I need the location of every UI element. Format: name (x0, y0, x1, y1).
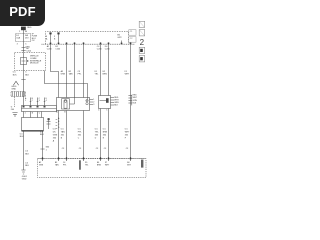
svg-text:BRN: BRN (97, 165, 102, 167)
svg-text:3: 3 (93, 104, 94, 106)
wire: speaker feed B (74, 44, 76, 97)
svg-text:A5: A5 (61, 70, 64, 73)
svg-text:C200: C200 (97, 49, 103, 51)
svg-text:0.5: 0.5 (125, 128, 129, 130)
svg-text:A: A (56, 111, 58, 114)
svg-text:GRN: GRN (133, 100, 138, 102)
svg-text:5: 5 (25, 72, 27, 74)
module pin terminals (49, 32, 51, 34)
svg-text:BLK: BLK (133, 103, 137, 105)
pin marks on module face (50, 43, 52, 45)
svg-text:335: 335 (125, 134, 129, 136)
svg-text:334: 334 (103, 134, 107, 136)
wire: speaker feed A (66, 44, 68, 158)
bottom module connector face (dotted top edge) (38, 158, 147, 160)
svg-text:1: 1 (25, 113, 26, 115)
wire: bus pin drop 1 (staircase to speaker box) (51, 34, 59, 98)
svg-text:B2: B2 (69, 71, 72, 73)
svg-text:C: C (39, 113, 41, 115)
inline connector on right wire (128, 95, 131, 106)
svg-text:PPL: PPL (78, 131, 83, 133)
wire: module feed D (100, 44, 102, 158)
wire: module feed E (108, 44, 110, 158)
svg-text:2: 2 (32, 100, 33, 102)
svg-text:BLK: BLK (25, 153, 29, 155)
svg-text:C3: C3 (62, 148, 64, 150)
svg-text:D: D (95, 137, 97, 139)
svg-text:1: 1 (25, 100, 26, 102)
svg-text:2: 2 (19, 31, 20, 33)
wire: main left feed vertical (23, 27, 25, 170)
svg-text:PPL: PPL (63, 165, 67, 167)
svg-text:CK: CK (32, 40, 35, 42)
svg-text:0.5: 0.5 (103, 128, 107, 130)
svg-text:3: 3 (39, 100, 40, 102)
svg-text:F: F (125, 137, 127, 139)
svg-text:B: B (32, 113, 34, 115)
svg-text:0.5: 0.5 (13, 72, 17, 74)
B2 heavy bottom edge (22, 130, 44, 132)
svg-text:GND: GND (11, 89, 16, 91)
svg-text:C100: C100 (26, 50, 32, 52)
svg-text:YEL: YEL (95, 131, 100, 133)
module face (dotted bottom edge) (42, 43, 135, 45)
svg-text:5: 5 (106, 109, 107, 111)
svg-text:C: C (58, 124, 60, 126)
svg-text:BRN: BRN (103, 74, 108, 76)
svg-text:RED: RED (27, 27, 32, 29)
ground drop dashed wire (14, 97, 16, 107)
svg-text:WHT: WHT (125, 74, 130, 76)
svg-text:B: B (61, 137, 63, 139)
svg-text:5: 5 (25, 44, 27, 46)
svg-text:RED: RED (133, 95, 138, 97)
component box B2 (22, 118, 44, 131)
B2 pin ticks (56, 120, 58, 129)
ground bars (12, 113, 17, 117)
inline connector comb (11, 92, 26, 97)
svg-text:10A: 10A (16, 37, 20, 40)
svg-text:WHT: WHT (105, 165, 110, 167)
svg-text:GRN: GRN (53, 134, 58, 136)
svg-text:YEL: YEL (95, 74, 100, 76)
wire segment inside B1 (70, 98, 75, 105)
svg-text:0.5: 0.5 (95, 128, 99, 130)
svg-text:0.5: 0.5 (25, 162, 29, 164)
ground symbol bottom left (21, 170, 25, 174)
cassette symbol inside B1 (62, 99, 70, 109)
svg-text:C200: C200 (105, 49, 111, 51)
splice tick S301 (21, 79, 25, 81)
svg-text:331: 331 (61, 134, 65, 136)
svg-text:1: 1 (46, 149, 48, 151)
margin icon: square 1 (139, 21, 145, 27)
svg-text:BRN: BRN (103, 131, 108, 133)
margin icon: square 2 (139, 30, 145, 36)
svg-text:GND: GND (22, 179, 27, 181)
svg-text:332: 332 (78, 134, 82, 136)
svg-text:F4: F4 (16, 35, 19, 37)
right internal mark (141, 160, 143, 168)
svg-text:YEL: YEL (85, 165, 89, 167)
ticks on pins above connector (30, 101, 46, 103)
radio internal component (21, 58, 27, 65)
svg-text:E: E (103, 137, 105, 139)
svg-text:C200: C200 (55, 49, 61, 51)
jack circles inside B1 (87, 98, 89, 100)
svg-text:BLK: BLK (25, 165, 29, 167)
module box B3 (99, 96, 111, 109)
svg-text:3: 3 (17, 44, 18, 46)
connection ticks on module face (67, 42, 131, 44)
svg-text:DK: DK (53, 131, 56, 133)
bottom module (dashed outline) (38, 159, 147, 178)
internal divider mark (79, 160, 81, 169)
pin marks on bottom connector face (42, 158, 44, 160)
svg-text:C3: C3 (79, 148, 81, 150)
svg-text:4: 4 (46, 100, 47, 102)
svg-text:D1: D1 (95, 71, 98, 73)
wire: speaker return below box (58, 111, 60, 159)
svg-text:A: A (46, 37, 48, 40)
svg-text:C2: C2 (130, 38, 134, 40)
svg-text:2: 2 (140, 38, 145, 47)
wire: pins into flat connector (30, 98, 32, 106)
svg-text:BLK: BLK (40, 134, 44, 136)
svg-text:333: 333 (95, 134, 99, 136)
radio unit U1 (dashed outline) (15, 53, 46, 71)
fuse F1 (dashed fuse block box) (16, 34, 31, 42)
svg-text:200: 200 (11, 109, 14, 111)
connector C100 ticks (21, 48, 25, 51)
svg-text:B: B (64, 112, 66, 114)
svg-text:B: B (54, 38, 56, 40)
svg-text:A: A (53, 139, 55, 142)
wire: bus pin drop 2 (58, 34, 60, 45)
svg-text:C3: C3 (78, 71, 81, 73)
B1 right-side pins (90, 100, 94, 105)
connector tag C2 (129, 37, 136, 43)
svg-text:TAN: TAN (69, 73, 73, 76)
svg-text:PPL: PPL (78, 74, 83, 76)
capacitor symbol beside B2 (47, 118, 51, 129)
svg-text:0.5: 0.5 (78, 128, 82, 130)
svg-text:BLK: BLK (13, 74, 17, 76)
svg-text:4: 4 (98, 109, 99, 111)
svg-text:GRY: GRY (127, 165, 132, 167)
B3 internal connector blob (106, 98, 109, 103)
svg-text:A: A (58, 117, 60, 120)
svg-text:C1: C1 (130, 31, 134, 33)
junction dot (27, 60, 28, 61)
svg-text:GRY: GRY (117, 37, 122, 39)
flat connector block (22, 106, 57, 112)
margin icon: filled square 1 (139, 47, 145, 53)
power source terminal (21, 27, 26, 31)
svg-text:D: D (58, 127, 60, 129)
svg-text:C3: C3 (126, 148, 128, 150)
PDF badge (0, 0, 45, 26)
ground chevron (13, 81, 18, 85)
wire: right long wire F (130, 44, 132, 158)
svg-text:330: 330 (53, 137, 57, 139)
svg-text:F1: F1 (125, 71, 128, 73)
wire: antenna lead from radio to jack (45, 71, 88, 98)
svg-text:MODULE: MODULE (30, 63, 39, 65)
svg-text:WHT: WHT (133, 97, 138, 99)
speaker box B1 (cassette deck) (57, 98, 90, 111)
wire: long signal wire C (83, 44, 85, 158)
margin icon: filled square 2 (139, 56, 145, 62)
svg-text:C200: C200 (47, 49, 53, 51)
splice tick S (40, 148, 44, 150)
svg-text:C3: C3 (96, 148, 98, 150)
svg-text:C3: C3 (104, 148, 106, 150)
svg-text:0.5: 0.5 (61, 128, 65, 130)
svg-text:TAN: TAN (61, 130, 65, 133)
B3 right-side pins (111, 98, 115, 106)
flat connector pin terminals (23, 106, 25, 108)
svg-text:E2: E2 (103, 71, 106, 73)
svg-text:B: B (58, 121, 60, 123)
pin stub with label (121, 41, 123, 45)
connector tag C1 (129, 30, 136, 36)
svg-text:BLK: BLK (20, 136, 24, 138)
svg-text:0.5: 0.5 (25, 151, 29, 153)
body control module (dashed outline) (46, 32, 129, 45)
svg-text:BLK: BLK (114, 104, 118, 106)
svg-text:DIO: DIO (25, 38, 29, 40)
svg-text:GRN: GRN (61, 74, 66, 76)
wire: below B2 to bottom connector (42, 131, 44, 159)
svg-text:TAN: TAN (55, 164, 59, 167)
svg-text:GRN: GRN (39, 165, 44, 167)
svg-text:WHT: WHT (125, 131, 130, 133)
svg-text:BLK: BLK (25, 74, 29, 76)
svg-text:RA: RA (25, 34, 28, 37)
svg-text:40: 40 (25, 31, 27, 33)
entry ticks bottom connector (43, 157, 131, 161)
svg-text:C: C (78, 137, 80, 139)
